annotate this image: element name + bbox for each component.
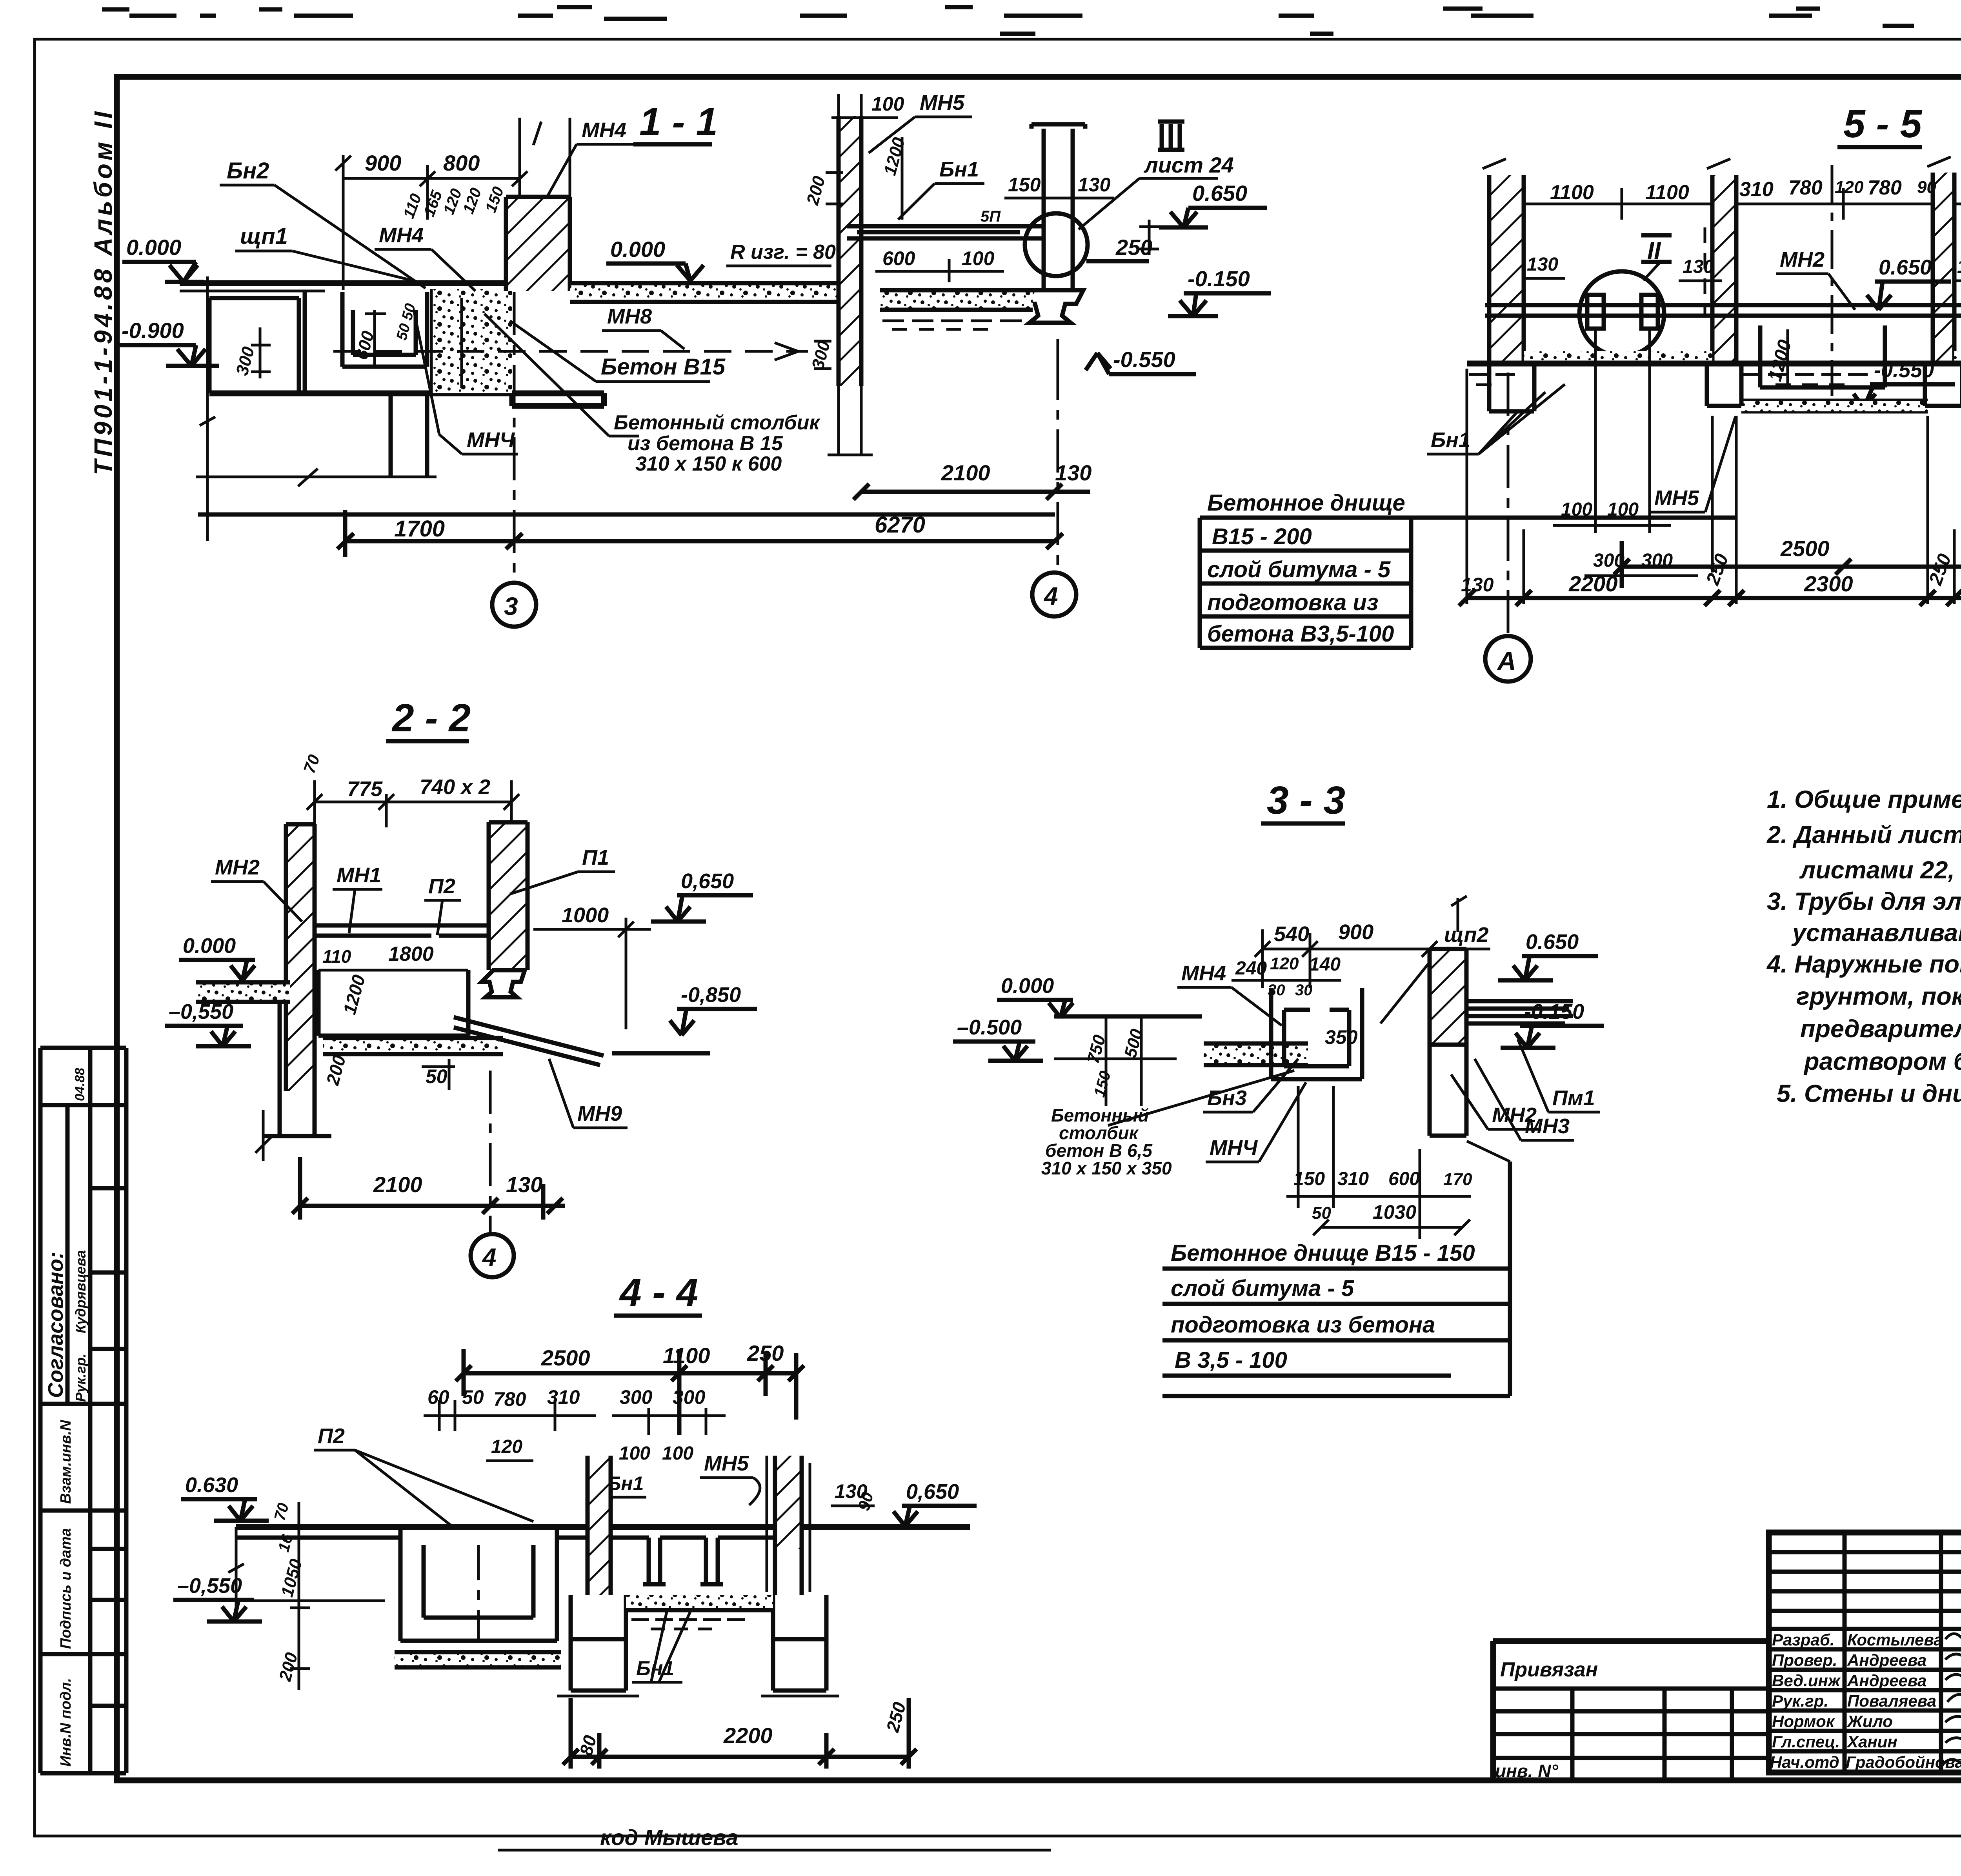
svg-text:бетона В3,5-100: бетона В3,5-100 <box>1207 621 1394 647</box>
svg-text:МН2: МН2 <box>1780 248 1825 271</box>
svg-text:130: 130 <box>1957 256 1961 277</box>
level mark -0.900 <box>118 318 219 366</box>
svg-text:0.650: 0.650 <box>1192 181 1247 205</box>
svg-text:-0.550: -0.550 <box>1113 347 1175 372</box>
svg-text:4 - 4: 4 - 4 <box>619 1271 698 1314</box>
pipes bundle right <box>1466 1001 1573 1023</box>
svg-text:130: 130 <box>1527 254 1558 275</box>
svg-text:2200: 2200 <box>723 1723 773 1748</box>
svg-text:-0.150: -0.150 <box>1524 1000 1584 1023</box>
svg-text:МН3: МН3 <box>1525 1114 1570 1138</box>
бетонный столбик text <box>1041 1105 1172 1178</box>
svg-text:Ханин: Ханин <box>1846 1732 1897 1751</box>
wall C <box>1933 173 1954 364</box>
left stamp strip <box>40 1048 126 1773</box>
svg-text:грунтом, покрыть горячим би: грунтом, покрыть горячим битумом за 2 ра… <box>1796 983 1961 1010</box>
signature-table columns <box>1845 1532 1961 1772</box>
svg-text:2500: 2500 <box>541 1345 590 1370</box>
svg-text:Бн1: Бн1 <box>1431 428 1470 452</box>
svg-text:слой битума - 5: слой битума - 5 <box>1171 1276 1354 1301</box>
svg-text:2500: 2500 <box>1780 536 1830 561</box>
left wall hatched <box>286 824 315 1091</box>
svg-text:120: 120 <box>491 1436 522 1457</box>
upper empty grid rows <box>1769 1552 1961 1611</box>
svg-text:310 х 150 к 600: 310 х 150 к 600 <box>635 453 782 475</box>
svg-text:В15 - 200: В15 - 200 <box>1212 524 1312 549</box>
svg-text:подготовка из бетона: подготовка из бетона <box>1171 1312 1435 1338</box>
left ground line <box>177 1527 385 1610</box>
svg-text:540: 540 <box>1274 922 1309 946</box>
svg-text:2100: 2100 <box>373 1172 422 1197</box>
svg-text:раствором битума в бензине.: раствором битума в бензине. <box>1803 1048 1961 1075</box>
ground hatch marks <box>882 321 1022 329</box>
svg-text:780: 780 <box>493 1388 526 1410</box>
svg-text:310 х 150 х 350: 310 х 150 х 350 <box>1041 1158 1172 1178</box>
hatched wall top right of 1-1 <box>506 197 570 291</box>
svg-text:04.88: 04.88 <box>73 1068 87 1101</box>
svg-text:310: 310 <box>547 1386 580 1408</box>
svg-text:Согласовано:: Согласовано: <box>44 1252 67 1398</box>
footings <box>1489 364 1961 411</box>
beam / channel <box>847 226 1042 238</box>
svg-text:Рук.гр.: Рук.гр. <box>73 1354 89 1402</box>
svg-text:–0.500: –0.500 <box>957 1016 1022 1039</box>
svg-text:МН4: МН4 <box>1181 962 1226 985</box>
ground line + stipple floors <box>1524 351 1712 364</box>
channel U between B and C <box>1741 325 1928 411</box>
central channel <box>1271 988 1362 1079</box>
right floor slab <box>880 290 1033 310</box>
right wall hatched <box>489 822 528 970</box>
svg-text:код Мышева: код Мышева <box>600 1825 738 1850</box>
svg-text:МН4: МН4 <box>379 224 424 247</box>
svg-text:Вед.инж: Вед.инж <box>1772 1671 1841 1690</box>
svg-text:300: 300 <box>620 1386 653 1408</box>
svg-text:Жило: Жило <box>1846 1712 1893 1731</box>
svg-text:5. Стены и днище каналов в: 5. Стены и днище каналов выполнить из бе… <box>1777 1080 1961 1107</box>
wall W2 hatched <box>839 116 861 386</box>
svg-text:Кудрявцева: Кудрявцева <box>73 1250 89 1333</box>
broken dim line <box>196 469 437 486</box>
svg-text:Поваляева: Поваляева <box>1847 1692 1936 1710</box>
svg-text:310: 310 <box>1337 1169 1369 1189</box>
svg-text:Андреева: Андреева <box>1847 1671 1926 1690</box>
svg-text:50: 50 <box>426 1065 448 1087</box>
canal axis dash-dot <box>1831 165 1834 396</box>
svg-text:-0.900: -0.900 <box>122 318 184 343</box>
svg-text:Подпись и дата: Подпись и дата <box>58 1528 74 1649</box>
svg-text:4: 4 <box>1043 582 1058 610</box>
signature table texts <box>1770 1631 1961 1771</box>
left channel U <box>400 1530 557 1641</box>
detail circle II <box>1025 213 1088 276</box>
svg-text:780: 780 <box>1788 176 1823 199</box>
svg-text:МН5: МН5 <box>1654 486 1699 510</box>
svg-text:4: 4 <box>482 1243 497 1271</box>
svg-text:2. Данный лист рассматривать: 2. Данный лист рассматривать совместно с <box>1766 821 1961 849</box>
svg-text:250: 250 <box>1115 235 1152 260</box>
svg-text:1000: 1000 <box>562 903 609 927</box>
svg-text:130: 130 <box>1078 174 1111 196</box>
svg-text:6270: 6270 <box>875 512 925 538</box>
svg-text:110: 110 <box>322 946 351 967</box>
signature squiggles <box>1943 1631 1961 1764</box>
svg-text:П2: П2 <box>318 1424 345 1448</box>
svg-text:Бн2: Бн2 <box>227 158 269 184</box>
svg-text:600: 600 <box>1388 1169 1420 1189</box>
бетонное днище table (5-5) <box>1200 490 1737 648</box>
wall B <box>1712 175 1736 364</box>
svg-text:Нач.отд: Нач.отд <box>1770 1753 1839 1771</box>
svg-text:1100: 1100 <box>663 1343 710 1368</box>
level mark 0.000 left <box>122 235 204 282</box>
svg-text:МН5: МН5 <box>704 1452 749 1475</box>
T column <box>1031 124 1085 290</box>
hatched column right <box>1430 949 1466 1045</box>
svg-text:Бетонное днище В15 - 150: Бетонное днище В15 - 150 <box>1171 1240 1475 1266</box>
pipe lines <box>1485 305 1961 316</box>
svg-text:3: 3 <box>504 592 518 620</box>
svg-text:1100: 1100 <box>1645 181 1689 204</box>
machine pit U <box>342 292 427 367</box>
bottom slab <box>395 1652 561 1667</box>
svg-text:300: 300 <box>673 1386 706 1408</box>
right hatched wall <box>775 1456 802 1549</box>
svg-text:предварительно огрунтованной: предварительно огрунтованной поверхности <box>1800 1015 1961 1043</box>
svg-text:100: 100 <box>871 93 904 115</box>
svg-text:0.000: 0.000 <box>126 235 181 260</box>
svg-text:Инв.N подл.: Инв.N подл. <box>58 1678 74 1767</box>
svg-text:900: 900 <box>365 151 401 175</box>
svg-text:Провер.: Провер. <box>1772 1651 1837 1669</box>
svg-text:120: 120 <box>1835 178 1864 197</box>
top dimension chain <box>1524 188 1961 220</box>
dim 300 inner <box>251 327 271 378</box>
svg-text:140: 140 <box>1309 954 1341 975</box>
left exterior slab <box>196 982 290 1002</box>
main floor lines <box>236 1524 970 1530</box>
rail foot <box>1024 290 1083 323</box>
svg-text:МН2: МН2 <box>215 856 260 879</box>
svg-text:2100: 2100 <box>941 460 990 485</box>
sleeves <box>1587 295 1961 329</box>
pit bottom long line <box>209 393 604 406</box>
svg-text:240: 240 <box>1235 958 1267 979</box>
svg-text:90: 90 <box>1917 178 1936 197</box>
svg-text:170: 170 <box>1443 1170 1472 1189</box>
signature rows <box>1769 1629 1961 1751</box>
svg-text:150: 150 <box>1008 174 1041 196</box>
svg-text:1 - 1: 1 - 1 <box>639 100 718 144</box>
привязан table <box>1493 1641 1769 1781</box>
svg-text:слой битума - 5: слой битума - 5 <box>1207 557 1391 582</box>
svg-text:130: 130 <box>1683 256 1714 277</box>
svg-text:130: 130 <box>506 1172 542 1197</box>
svg-text:1030: 1030 <box>1373 1201 1416 1223</box>
svg-text:листами 22, 24, 25.: листами 22, 24, 25. <box>1799 856 1961 884</box>
svg-text:100: 100 <box>1561 499 1592 520</box>
svg-text:Гл.спец.: Гл.спец. <box>1772 1732 1840 1751</box>
svg-text:775: 775 <box>347 777 383 801</box>
axis + circle 4 <box>1057 357 1059 569</box>
svg-text:Костылева: Костылева <box>1847 1631 1943 1649</box>
dim 600 rotated <box>365 310 386 365</box>
svg-text:–0,550: –0,550 <box>169 1000 233 1023</box>
interior shelf and floor <box>315 925 489 936</box>
extension lines down <box>1467 369 1961 604</box>
svg-text:МН4: МН4 <box>582 118 626 142</box>
axis dash in channel <box>477 1545 480 1643</box>
svg-text:устанавливать под наблюдение: устанавливать под наблюдением электромон… <box>1791 919 1961 947</box>
svg-text:подготовка из: подготовка из <box>1207 590 1378 615</box>
svg-text:А: А <box>1497 646 1516 675</box>
svg-text:R изг. = 800: R изг. = 800 <box>730 241 847 264</box>
rail foot under right wall <box>482 970 525 997</box>
svg-text:0.000: 0.000 <box>183 934 236 958</box>
svg-text:1100: 1100 <box>1550 181 1594 204</box>
svg-text:1. Общие примечания смотреть: 1. Общие примечания смотреть лист 1. <box>1767 786 1961 813</box>
mid hatched wall <box>588 1456 611 1595</box>
svg-text:Бетонный столбик: Бетонный столбик <box>614 411 820 434</box>
svg-text:0.000: 0.000 <box>610 237 665 262</box>
svg-text:0.650: 0.650 <box>1526 930 1579 954</box>
bottom slab <box>323 1038 503 1054</box>
svg-text:Рук.гр.: Рук.гр. <box>1772 1692 1828 1710</box>
svg-text:3 - 3: 3 - 3 <box>1267 778 1345 822</box>
svg-text:0.000: 0.000 <box>1001 974 1054 998</box>
svg-text:Нормок: Нормок <box>1772 1712 1835 1731</box>
svg-text:100: 100 <box>619 1443 650 1464</box>
svg-text:1800: 1800 <box>388 943 434 965</box>
ground hatch marks <box>1469 374 1961 385</box>
wall A hatched <box>1489 175 1524 364</box>
svg-text:4. Наружные поверхности кана: 4. Наружные поверхности каналов , соприк… <box>1766 951 1961 978</box>
svg-text:600: 600 <box>882 247 915 269</box>
concrete zone with dots <box>431 289 512 393</box>
III / лист 24 <box>1079 122 1234 229</box>
svg-text:100: 100 <box>962 247 995 269</box>
anchors below floor <box>643 1538 723 1584</box>
svg-text:щп1: щп1 <box>240 224 288 249</box>
svg-text:Андреева: Андреева <box>1847 1651 1926 1669</box>
concrete floor band with stipple <box>570 283 837 302</box>
svg-text:2200: 2200 <box>1568 571 1618 596</box>
left floor line <box>1054 1014 1202 1019</box>
svg-text:Привязан: Привязан <box>1500 1658 1598 1681</box>
svg-text:Бетонное днище: Бетонное днище <box>1207 490 1405 516</box>
svg-text:В 3,5 - 100: В 3,5 - 100 <box>1175 1347 1287 1373</box>
svg-text:0,650: 0,650 <box>681 869 734 893</box>
drain pipe <box>454 1017 604 1065</box>
бетонное днище table (3-3) <box>1162 1141 1510 1396</box>
labels with leaders <box>220 118 633 291</box>
tiny rotated dims <box>400 184 507 221</box>
bottom right small texts <box>498 1799 1961 1850</box>
svg-text:2300: 2300 <box>1804 571 1853 596</box>
svg-text:П1: П1 <box>582 846 609 869</box>
footings <box>571 1595 826 1691</box>
stipple slab left of channel <box>1204 1043 1308 1065</box>
130 dims at walls <box>1527 254 1961 280</box>
left vertical album designation <box>89 109 117 476</box>
svg-text:780: 780 <box>1868 176 1902 199</box>
left vertical extension line <box>200 276 215 541</box>
svg-text:Пм1: Пм1 <box>1552 1086 1595 1110</box>
pit room outline <box>209 291 305 393</box>
bottom section line <box>198 513 1055 517</box>
svg-text:инв. N°: инв. N° <box>1495 1761 1558 1781</box>
svg-text:1700: 1700 <box>394 516 445 542</box>
left lower wall <box>263 1003 331 1136</box>
floor top double line <box>180 280 520 286</box>
svg-text:130: 130 <box>1055 460 1091 485</box>
svg-text:из бетона В 15: из бетона В 15 <box>628 432 783 455</box>
axis A circle <box>1507 373 1510 634</box>
svg-text:МНЧ: МНЧ <box>467 428 515 452</box>
dashed water line <box>333 350 808 353</box>
ground between footings <box>626 1595 773 1610</box>
svg-text:Бетон В15: Бетон В15 <box>601 354 726 380</box>
svg-text:МН1: МН1 <box>337 863 381 887</box>
svg-text:-0,850: -0,850 <box>681 983 741 1007</box>
svg-text:3. Трубы для электрокабелей: 3. Трубы для электрокабелей и закладные … <box>1767 888 1961 915</box>
svg-text:П2: П2 <box>428 874 455 898</box>
svg-text:-0.150: -0.150 <box>1188 266 1250 291</box>
pit <box>318 970 468 1036</box>
svg-text:310: 310 <box>1739 178 1774 201</box>
svg-text:100: 100 <box>1607 499 1639 520</box>
svg-text:МН5: МН5 <box>920 91 965 115</box>
svg-text:Разраб.: Разраб. <box>1772 1631 1835 1649</box>
svg-text:900: 900 <box>1338 920 1373 944</box>
svg-text:щп2: щп2 <box>1444 923 1489 947</box>
svg-text:50: 50 <box>462 1386 484 1408</box>
svg-text:130: 130 <box>1461 574 1494 596</box>
top scan artifact dashes <box>102 7 1961 34</box>
svg-text:5П: 5П <box>980 208 1001 225</box>
axis line and circle 3 <box>513 292 516 580</box>
axis + circle 4 <box>489 1071 492 1233</box>
svg-text:Взам.инв.N: Взам.инв.N <box>58 1420 74 1504</box>
svg-text:2 - 2: 2 - 2 <box>391 696 471 740</box>
svg-text:0,650: 0,650 <box>906 1480 959 1503</box>
svg-text:–0,550: –0,550 <box>177 1574 242 1598</box>
svg-text:350: 350 <box>1325 1026 1358 1048</box>
svg-text:5 - 5: 5 - 5 <box>1843 102 1922 146</box>
бетонный столбик text <box>614 411 820 475</box>
svg-text:740 х 2: 740 х 2 <box>420 775 490 799</box>
svg-text:МН9: МН9 <box>577 1102 622 1125</box>
pedestal below <box>391 393 427 477</box>
dashed line near wall B <box>1704 227 1706 314</box>
svg-text:100: 100 <box>662 1443 693 1464</box>
svg-text:МНЧ: МНЧ <box>1210 1136 1258 1160</box>
svg-text:0.650: 0.650 <box>1879 256 1932 279</box>
svg-text:120: 120 <box>1270 954 1299 973</box>
svg-text:МН8: МН8 <box>607 305 652 328</box>
svg-text:800: 800 <box>443 151 480 175</box>
svg-text:ТП901-1-94.88 Альбом II: ТП901-1-94.88 Альбом II <box>89 109 117 476</box>
svg-text:Бн1: Бн1 <box>939 158 979 181</box>
svg-text:лист 24: лист 24 <box>1143 153 1234 177</box>
svg-text:0.630: 0.630 <box>185 1473 238 1497</box>
svg-text:30: 30 <box>1295 982 1313 999</box>
